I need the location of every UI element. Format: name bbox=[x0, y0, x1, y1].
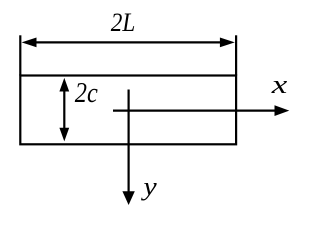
dimension arrowhead left bbox=[22, 38, 37, 48]
dimension line 2L bbox=[33, 41, 223, 43]
2c arrowhead bottom bbox=[59, 128, 69, 142]
svg-text:y: y bbox=[140, 172, 157, 201]
right extension line bbox=[235, 35, 237, 75]
left extension line bbox=[19, 35, 21, 75]
dimension arrowhead right bbox=[220, 38, 235, 48]
beam rectangle bbox=[20, 76, 236, 145]
x axis arrowhead bbox=[275, 105, 290, 116]
svg-text:2L: 2L bbox=[111, 8, 136, 37]
y axis line bbox=[128, 90, 130, 193]
2c arrowhead top bbox=[59, 78, 69, 92]
svg-text:2c: 2c bbox=[75, 78, 98, 109]
y axis arrowhead bbox=[122, 191, 134, 205]
x axis line bbox=[113, 109, 276, 111]
svg-text:x: x bbox=[270, 70, 287, 99]
dimension line 2c bbox=[63, 88, 65, 132]
